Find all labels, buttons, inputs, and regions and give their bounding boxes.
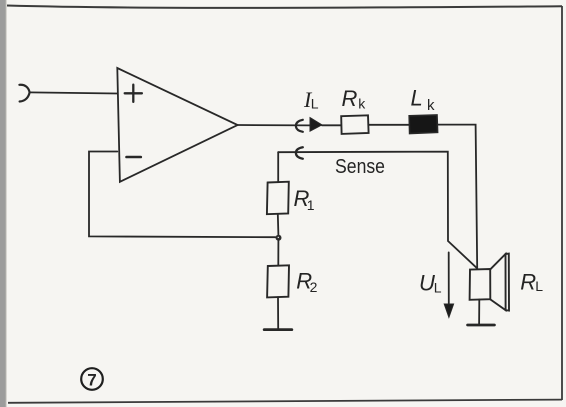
connector arc on sense <box>296 147 303 158</box>
svg-text:k: k <box>427 97 435 114</box>
label R1 <box>294 186 315 213</box>
loudspeaker R_L horn <box>490 254 505 310</box>
figure number 7 <box>81 368 103 390</box>
op-amp U1 <box>117 68 237 182</box>
label R2 <box>296 269 317 296</box>
svg-text:Sense: Sense <box>335 155 385 178</box>
svg-text:R: R <box>520 269 536 294</box>
label I_L <box>303 87 319 112</box>
label L_k <box>411 85 436 113</box>
svg-text:U: U <box>419 271 435 296</box>
label U_L <box>419 271 442 296</box>
wire input to op-amp <box>30 92 118 93</box>
svg-text:2: 2 <box>310 279 318 295</box>
svg-text:k: k <box>358 96 366 112</box>
svg-text:R: R <box>342 86 358 111</box>
wire sense corner to R1 <box>277 152 279 182</box>
svg-text:7: 7 <box>87 370 96 389</box>
connector arc on output <box>296 120 303 132</box>
current arrow I_L <box>310 118 322 132</box>
svg-text:L: L <box>535 278 543 294</box>
wire sense line <box>278 152 476 268</box>
svg-text:L: L <box>311 96 319 112</box>
arrow U_L <box>448 252 450 305</box>
svg-text:1: 1 <box>307 197 315 213</box>
wire L_k to loudspeaker <box>437 125 477 269</box>
input terminal arc <box>19 85 29 102</box>
ground under R2 <box>264 328 292 331</box>
resistor R_k <box>341 115 368 134</box>
wire R1 to node <box>277 214 280 235</box>
wire node to R2 <box>277 240 279 266</box>
wire R_k to L_k <box>368 124 409 126</box>
svg-text:L: L <box>411 85 423 110</box>
scan gutter bar (decorative) <box>0 0 6 407</box>
wire op-amp output <box>238 124 310 126</box>
label R_k <box>342 86 367 111</box>
label R_L <box>520 269 543 294</box>
wire loudspeaker to ground <box>478 300 480 325</box>
node junction <box>276 235 282 241</box>
svg-text:L: L <box>434 279 442 295</box>
resistor R1 <box>267 182 289 215</box>
wire arrow to R_k <box>322 124 341 126</box>
wire R2 to ground <box>277 297 279 329</box>
figure frame (decorative) <box>7 6 562 8</box>
ground under loudspeaker <box>468 324 495 327</box>
inductor L_k <box>409 115 437 134</box>
resistor R2 <box>267 265 289 297</box>
loudspeaker R_L driver box <box>470 269 491 300</box>
wire feedback to op-amp minus input <box>89 152 276 238</box>
